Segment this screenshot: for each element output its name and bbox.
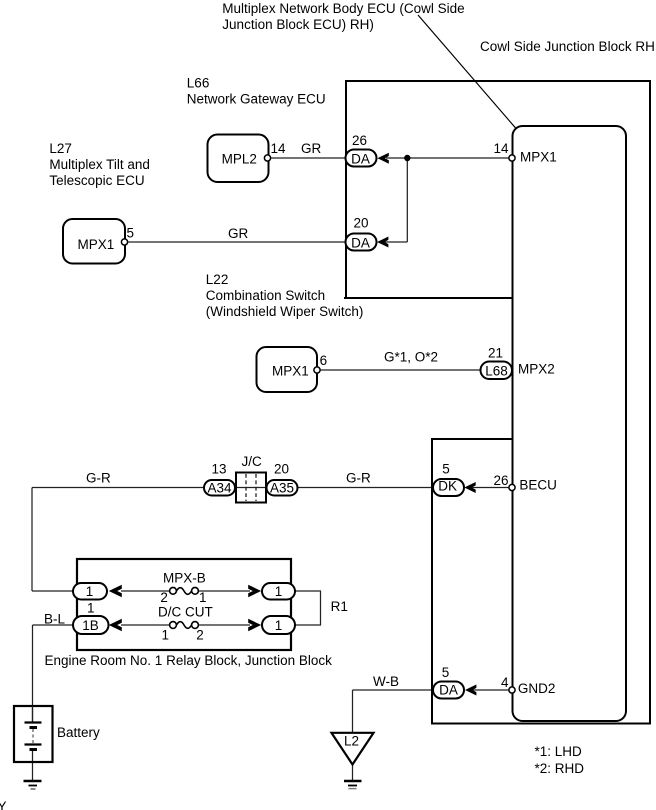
- svg-text:MPX1: MPX1: [272, 364, 309, 379]
- svg-text:5: 5: [127, 226, 135, 241]
- svg-text:MPL2: MPL2: [222, 152, 257, 167]
- svg-text:Cowl Side Junction Block RH: Cowl Side Junction Block RH: [480, 39, 655, 54]
- svg-text:B-L: B-L: [44, 611, 66, 626]
- svg-text:Telescopic ECU: Telescopic ECU: [49, 173, 144, 188]
- svg-text:MPX1: MPX1: [78, 237, 115, 252]
- svg-text:L2: L2: [344, 734, 359, 749]
- svg-text:G*1, O*2: G*1, O*2: [384, 350, 438, 365]
- svg-text:Engine Room No. 1 Relay Block,: Engine Room No. 1 Relay Block, Junction …: [45, 653, 333, 668]
- svg-text:*2: RHD: *2: RHD: [535, 761, 585, 776]
- svg-text:W-B: W-B: [373, 674, 399, 689]
- svg-text:GR: GR: [301, 141, 322, 156]
- svg-text:Network Gateway ECU: Network Gateway ECU: [187, 91, 326, 106]
- svg-text:DA: DA: [439, 683, 458, 698]
- svg-text:DK: DK: [438, 479, 457, 494]
- svg-text:D/C CUT: D/C CUT: [158, 605, 213, 620]
- svg-text:1: 1: [275, 618, 283, 633]
- svg-text:20: 20: [274, 462, 289, 477]
- svg-text:26: 26: [493, 473, 508, 488]
- svg-text:6: 6: [320, 353, 328, 368]
- svg-text:1B: 1B: [82, 618, 99, 633]
- svg-text:5: 5: [442, 462, 450, 477]
- svg-text:L68: L68: [485, 364, 508, 379]
- svg-text:L22: L22: [206, 272, 229, 287]
- svg-text:Multiplex Network Body ECU (Co: Multiplex Network Body ECU (Cowl Side: [222, 1, 464, 16]
- svg-text:(Windshield Wiper Switch): (Windshield Wiper Switch): [206, 304, 364, 319]
- svg-text:L27: L27: [49, 141, 72, 156]
- svg-text:2: 2: [160, 590, 168, 605]
- svg-text:1: 1: [86, 584, 94, 599]
- svg-text:MPX-B: MPX-B: [163, 571, 206, 586]
- svg-text:Battery: Battery: [57, 725, 100, 740]
- svg-text:GND2: GND2: [518, 681, 556, 696]
- svg-text:14: 14: [493, 141, 509, 156]
- svg-text:Combination Switch: Combination Switch: [206, 288, 325, 303]
- svg-text:MPX2: MPX2: [518, 362, 555, 377]
- svg-text:Multiplex Tilt and: Multiplex Tilt and: [49, 157, 150, 172]
- svg-text:G-R: G-R: [346, 470, 371, 485]
- svg-text:L66: L66: [187, 75, 210, 90]
- svg-text:A35: A35: [270, 480, 294, 495]
- svg-text:2: 2: [196, 628, 204, 643]
- svg-text:BECU: BECU: [519, 478, 557, 493]
- svg-text:13: 13: [211, 462, 226, 477]
- svg-text:1: 1: [162, 628, 170, 643]
- svg-text:Y: Y: [0, 799, 7, 810]
- svg-text:1: 1: [275, 584, 283, 599]
- svg-text:J/C: J/C: [242, 454, 263, 469]
- svg-text:DA: DA: [351, 151, 370, 166]
- svg-text:26: 26: [352, 133, 367, 148]
- svg-text:Junction Block ECU) RH): Junction Block ECU) RH): [222, 17, 374, 32]
- svg-text:20: 20: [353, 216, 368, 231]
- svg-text:A34: A34: [207, 480, 232, 495]
- svg-text:14: 14: [271, 141, 287, 156]
- svg-text:1: 1: [199, 590, 207, 605]
- svg-text:R1: R1: [331, 599, 348, 614]
- svg-text:1: 1: [87, 601, 95, 616]
- svg-text:MPX1: MPX1: [520, 150, 557, 165]
- svg-text:5: 5: [442, 665, 450, 680]
- svg-text:21: 21: [488, 346, 503, 361]
- svg-text:DA: DA: [351, 235, 370, 250]
- svg-text:4: 4: [501, 675, 509, 690]
- svg-text:*1: LHD: *1: LHD: [535, 744, 583, 759]
- svg-text:G-R: G-R: [86, 470, 111, 485]
- svg-text:GR: GR: [228, 226, 249, 241]
